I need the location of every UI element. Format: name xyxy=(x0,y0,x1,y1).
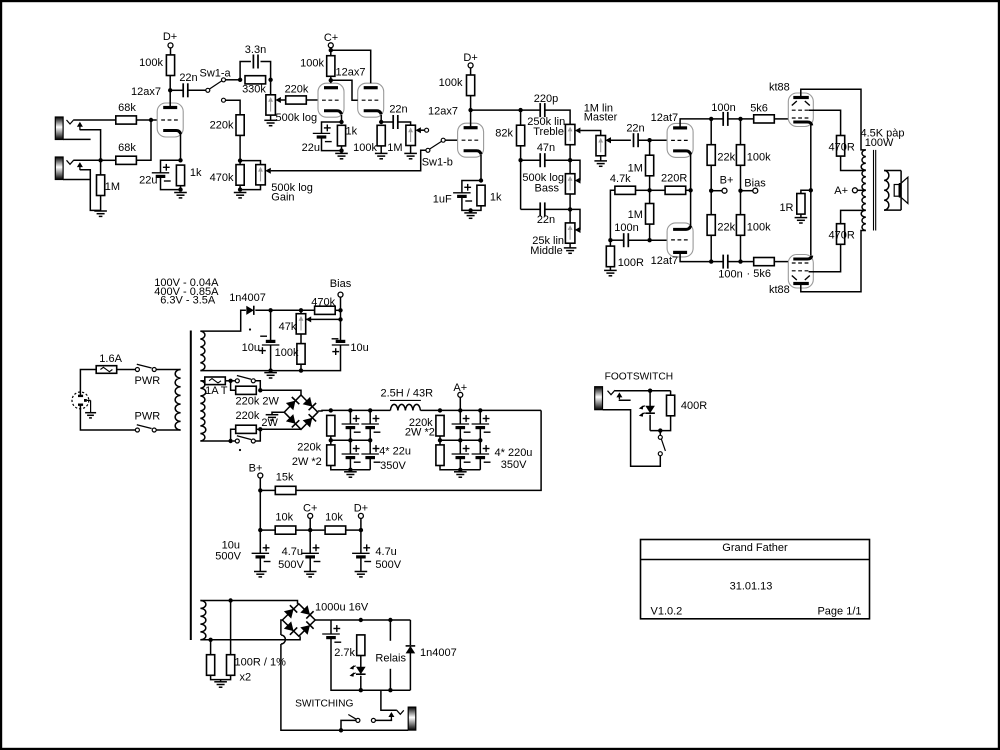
wire treble bottom xyxy=(569,145,571,174)
svg-text:Bias: Bias xyxy=(330,278,352,290)
terminal A+ (OPT) xyxy=(852,188,857,193)
wire 4.7uC top xyxy=(309,530,311,553)
label 4.5K pap xyxy=(861,128,905,140)
wire bleeder bottom xyxy=(331,466,370,470)
label PWR bottom xyxy=(135,411,161,423)
svg-text:2W *2: 2W *2 xyxy=(292,456,322,468)
potentiometer 500k log (volume) xyxy=(266,95,281,115)
svg-text:500V: 500V xyxy=(375,559,401,571)
junction V4b grid node xyxy=(647,238,651,242)
wire A+ to CT xyxy=(857,189,866,191)
jack SW tip contact xyxy=(396,710,404,715)
junction input node xyxy=(98,158,102,162)
svg-text:1.6A: 1.6A xyxy=(99,353,122,365)
label 15k xyxy=(276,472,294,484)
svg-text:2W *2: 2W *2 xyxy=(405,427,435,439)
svg-text:31.01.13: 31.01.13 xyxy=(730,581,773,593)
switch Sw1-b pole xyxy=(441,138,445,142)
wire C+ term xyxy=(309,518,311,530)
LED (relay) xyxy=(350,665,366,677)
resistor 470R (upper screen) xyxy=(837,136,845,157)
label 220k xyxy=(285,84,309,96)
capacitor 22n (PI input) xyxy=(634,133,639,147)
label 22n tone xyxy=(537,214,555,226)
wiper arrow middle xyxy=(575,227,581,233)
wire 1k-2 bottom xyxy=(341,146,343,153)
label version xyxy=(651,606,683,618)
junction top rail right xyxy=(738,117,742,121)
label 68k xyxy=(118,102,136,114)
wire middle wiper loop xyxy=(570,209,580,230)
wire Bias stub xyxy=(741,190,754,192)
capacitor 22u bank (1a) xyxy=(342,415,361,432)
wire capB2 leads xyxy=(479,440,481,454)
wire 100k bias bottom xyxy=(300,364,302,370)
label 220k bleeder2 xyxy=(409,417,433,429)
wire V4a plate xyxy=(680,119,711,128)
svg-text:B+: B+ xyxy=(249,463,263,475)
label 100R 1% xyxy=(235,657,287,669)
jack J1 tip contact xyxy=(67,120,75,125)
label 1A T xyxy=(205,385,228,397)
wire J2 sleeve xyxy=(63,179,90,181)
wire 22k lower bottom xyxy=(710,235,712,261)
wire fuse to switch xyxy=(117,369,136,371)
potentiometer 25k lin (Middle) xyxy=(565,223,580,243)
wire capB1 leads xyxy=(479,410,481,424)
label 500V d xyxy=(375,559,401,571)
wire bleeder2 bottom xyxy=(440,466,480,470)
switch soft start bottom xyxy=(235,436,255,443)
svg-text:100R / 1%: 100R / 1% xyxy=(235,657,287,669)
wire flyback top xyxy=(409,620,411,645)
jack J2 switch contact xyxy=(77,162,83,170)
svg-text:1n4007: 1n4007 xyxy=(420,647,457,659)
switch footsw remote xyxy=(348,715,375,723)
capacitor 100n (lower coupling) xyxy=(723,255,728,269)
wire 5k6 lower to KT88 xyxy=(774,261,788,263)
junction V1 plate node xyxy=(168,88,172,92)
label page xyxy=(817,606,861,618)
svg-text:220k: 220k xyxy=(210,119,234,131)
junction 100k bias gnd xyxy=(299,368,303,372)
label 4* 220u xyxy=(495,447,533,459)
label 400R xyxy=(681,400,707,412)
wire sleeve xyxy=(341,729,408,731)
junction 100R-2 top xyxy=(228,598,232,602)
svg-text:D+: D+ xyxy=(354,503,368,515)
resistor 100k (lower bias) xyxy=(736,215,744,236)
wire 470R upper to tap xyxy=(841,156,866,170)
label 47n xyxy=(537,142,555,154)
label 100k lower xyxy=(747,222,771,234)
wire fuse to node xyxy=(225,380,235,382)
wire B+ down xyxy=(259,478,261,530)
wire 1k-3 bottom xyxy=(471,206,481,211)
wire 1R top xyxy=(801,190,811,193)
label 22n PI xyxy=(626,123,644,135)
wire 3.3n right xyxy=(261,62,271,80)
label 22n xyxy=(389,104,407,116)
wire V2b cathode to 22n xyxy=(381,121,393,123)
label 10u bias1 xyxy=(242,342,260,354)
resistor 22k (upper) xyxy=(707,145,715,166)
wire plate node to 22n xyxy=(170,89,183,91)
wire Sw1-b pole to grid xyxy=(445,139,457,141)
resistor 1M (PI lower) xyxy=(646,204,654,225)
resistor 220k 2W (bleeder 1b) xyxy=(327,445,335,466)
fuse 1.6A xyxy=(96,366,117,374)
wire KT88u cathode xyxy=(810,125,812,190)
wire bypass bottom xyxy=(255,429,260,441)
wire bridge2 minus down xyxy=(281,644,341,730)
mains plug xyxy=(72,392,96,418)
ground volume pot xyxy=(264,120,277,125)
resistor 220R xyxy=(665,186,686,194)
ground 1M pot xyxy=(404,153,417,158)
wire D+ term xyxy=(360,518,362,530)
junction bleeder mid xyxy=(329,438,333,442)
wire B+ stub xyxy=(711,190,722,192)
wire capB1 bot xyxy=(479,428,481,441)
wire 1000u bottom xyxy=(331,638,361,691)
wire to bridge bottom2 xyxy=(260,428,301,430)
junction mid rail 1b xyxy=(368,438,372,442)
wire 100k lower bottom xyxy=(740,235,742,261)
terminal D+ (PSU) xyxy=(358,513,363,518)
label 12ax7 V1 xyxy=(131,86,161,98)
svg-text:330k: 330k xyxy=(242,84,266,96)
svg-text:220k 2W: 220k 2W xyxy=(236,396,280,408)
label SWITCHING xyxy=(295,699,353,710)
junction 100R-1 top xyxy=(208,638,212,642)
switch Sw1-a throw down xyxy=(222,98,226,102)
svg-text:500V: 500V xyxy=(215,551,241,563)
transformer PT HV1 winding xyxy=(200,331,205,371)
wire 82k bottom xyxy=(520,146,522,210)
junction HV2 bottom xyxy=(228,439,232,443)
wire 100k to V2a plate xyxy=(330,76,332,83)
junction V3 plate node xyxy=(468,108,472,112)
svg-text:100k: 100k xyxy=(747,152,771,164)
label 470R upper xyxy=(829,142,855,154)
label 220p xyxy=(534,93,558,105)
capacitor 4.7u (C+) xyxy=(301,544,320,561)
terminal Bias (PI) xyxy=(753,188,758,193)
transformer PT core xyxy=(190,331,192,641)
svg-text:47n: 47n xyxy=(537,142,555,154)
sign minus 10u2 xyxy=(332,339,340,355)
svg-text:B+: B+ xyxy=(720,175,734,187)
wire 22n to Sw1-a pole xyxy=(188,89,206,91)
junction sleeve node xyxy=(339,728,343,732)
wire 220R leads xyxy=(650,189,666,191)
wire cathode node to 22u xyxy=(161,160,181,173)
junction V2b cathode node xyxy=(379,120,383,124)
resistor 4.7k (PI tail) xyxy=(615,186,636,194)
junction V3 ground node xyxy=(468,208,472,212)
choke 2.5H/43R xyxy=(390,404,420,410)
label 1000u 16V xyxy=(315,602,369,614)
wire 100n lower right xyxy=(728,261,741,263)
resistor 100k (upper bias) xyxy=(736,145,744,166)
svg-text:100k: 100k xyxy=(747,222,771,234)
label 4.7k xyxy=(610,173,631,185)
label 1R xyxy=(779,202,793,214)
ground input xyxy=(94,211,107,216)
wire hop xyxy=(281,635,286,644)
ground 100R xyxy=(604,270,617,275)
junction V2a cathode node xyxy=(339,120,343,124)
wire treble wiper to master xyxy=(580,131,600,136)
wire cap1b leads xyxy=(369,410,371,424)
junction bank2 gnd xyxy=(458,468,462,472)
wire bridge2 minus xyxy=(281,620,283,635)
wire cap2b leads xyxy=(369,440,371,454)
junction fs LED top xyxy=(648,389,652,393)
wire 100n right xyxy=(628,239,649,241)
wire 220k-2W-1 left xyxy=(231,381,236,391)
wire J1 switch to J2 tip xyxy=(80,130,101,161)
switch soft start top xyxy=(235,376,255,383)
junction PI tail node xyxy=(647,188,651,192)
wire 4.7uD bot xyxy=(360,557,362,572)
label 100k xyxy=(439,77,463,89)
wire 220k to node xyxy=(239,135,241,164)
label 2W lower xyxy=(261,417,278,429)
label 100k xyxy=(300,58,324,70)
switch Sw1-a pole xyxy=(206,88,210,92)
label 4* 22u xyxy=(379,446,411,458)
capacitor 4.7u (D+) xyxy=(352,544,371,561)
junction bias gnd xyxy=(268,368,272,372)
wire C+ to V2b plate xyxy=(331,50,371,83)
wire switch to sleeve xyxy=(341,720,356,730)
wire cap1a leads xyxy=(349,410,351,424)
label 82k xyxy=(495,128,513,140)
wire J1 tip to 68k xyxy=(74,119,115,121)
wire bass bottom xyxy=(569,194,571,223)
label 1M PI upper xyxy=(628,163,643,175)
wire 1000u top xyxy=(330,620,332,634)
junction V2a plate node xyxy=(329,78,333,82)
svg-text:12ax7: 12ax7 xyxy=(336,67,366,79)
fs 400R drop xyxy=(670,391,672,396)
label kt88 upper xyxy=(769,82,790,94)
wire 1M leads xyxy=(100,160,102,175)
wire 4.7k left xyxy=(610,190,615,240)
label Gain xyxy=(271,191,294,203)
wire 100k upper leads xyxy=(740,119,742,145)
svg-text:22n: 22n xyxy=(626,123,644,135)
svg-text:Middle: Middle xyxy=(530,245,562,257)
wire V1 cathode xyxy=(180,134,182,160)
label 10k 1 xyxy=(275,512,293,524)
label 220k bleeder1 xyxy=(297,442,321,454)
wire KT88l screen xyxy=(809,244,841,271)
label 68k xyxy=(118,142,136,154)
wire 100n left xyxy=(610,239,623,241)
wire to 220p xyxy=(521,109,541,111)
wire 1M upper xyxy=(649,140,651,155)
svg-text:22u: 22u xyxy=(302,142,320,154)
svg-text:Bass: Bass xyxy=(535,183,560,195)
label 2W *2 bleeder2 xyxy=(405,427,435,439)
wire 6.3V bottom xyxy=(200,636,300,640)
wire master wiper to 22n xyxy=(611,139,631,141)
svg-text:6.3V - 3.5A: 6.3V - 3.5A xyxy=(160,295,216,307)
junction 220k string top xyxy=(329,408,333,412)
ground 1R xyxy=(795,218,808,223)
svg-text:100n: 100n xyxy=(711,102,735,114)
switch Sw1-b arm xyxy=(430,141,442,149)
svg-text:82k: 82k xyxy=(495,128,513,140)
wire 1M wiper xyxy=(421,129,425,131)
wire 15k left xyxy=(260,489,275,491)
wire gain pot bottom xyxy=(240,185,260,190)
label 470R lower xyxy=(829,230,855,242)
wire 100R1 top xyxy=(210,640,212,655)
wire bridge2 plus xyxy=(315,619,331,621)
label 500k log bass xyxy=(522,172,564,184)
svg-text:1000u 16V: 1000u 16V xyxy=(315,602,369,614)
label Middle xyxy=(530,245,562,257)
label D+ xyxy=(463,52,477,64)
wire 10u500 top xyxy=(259,530,261,553)
switch Sw1-a arm xyxy=(210,81,222,89)
label Grand Father xyxy=(722,542,788,554)
junction bleeder2 mid xyxy=(438,438,442,442)
wire mains bottom xyxy=(80,409,135,430)
capacitor 220u bank (1b) xyxy=(472,415,491,432)
resistor 15k xyxy=(275,486,296,494)
svg-text:4* 220u: 4* 220u xyxy=(495,447,533,459)
svg-text:470R: 470R xyxy=(829,142,855,154)
ground 10u500 xyxy=(254,572,267,577)
svg-text:500k log: 500k log xyxy=(276,112,318,124)
switch PWR top xyxy=(135,364,156,371)
resistor 220k (Sw1-a alt) xyxy=(236,115,244,136)
wire 10u-2 bottom xyxy=(200,345,340,371)
label A+ PSU xyxy=(453,382,467,394)
svg-text:PWR: PWR xyxy=(135,375,161,387)
fs LED stem xyxy=(649,391,651,407)
jack J2 tip contact xyxy=(67,160,75,165)
svg-text:1M: 1M xyxy=(387,142,402,154)
junction B node2 xyxy=(258,528,262,532)
wire 22u to bottom xyxy=(161,176,181,189)
wire cap2b bot xyxy=(369,458,371,470)
capacitor 22u bank (1b) xyxy=(361,415,380,432)
wire 10u-1 bottom xyxy=(270,345,272,371)
label 220R xyxy=(661,173,687,185)
svg-text:10k: 10k xyxy=(275,512,293,524)
svg-text:A+: A+ xyxy=(834,185,848,197)
wire B rail xyxy=(318,409,391,412)
wire secondary right xyxy=(900,171,902,211)
wire 100R top xyxy=(609,240,611,246)
ground bias xyxy=(264,373,277,378)
label 1n4007 flyback xyxy=(420,647,457,659)
resistor 100R (humdinger 1) xyxy=(207,655,215,676)
junction fs switch xyxy=(658,428,662,432)
svg-text:100k: 100k xyxy=(300,58,324,70)
wire 470R lower to tap xyxy=(841,210,866,224)
svg-text:10k: 10k xyxy=(325,512,343,524)
switch PWR bottom xyxy=(135,425,156,432)
wire 4.7uC bot xyxy=(309,557,311,572)
stray dot 1 xyxy=(249,328,251,330)
transformer PT 6.3V winding xyxy=(200,601,205,640)
capacitor 22n (tone) xyxy=(540,202,545,216)
svg-text:3.3n: 3.3n xyxy=(245,44,266,56)
resistor 220k 2W (bleeder 2a) xyxy=(436,415,444,436)
resistor 22k (lower) xyxy=(707,215,715,236)
fs NC stub xyxy=(619,399,630,401)
wire bass wiper loop xyxy=(570,160,580,180)
wire 6.3V top xyxy=(200,601,297,604)
wiper arrow master ext xyxy=(605,137,611,143)
label Relais xyxy=(375,653,406,665)
ground 4.7u C xyxy=(304,572,317,577)
label 330k xyxy=(242,84,266,96)
label 350V bank2 xyxy=(501,459,527,471)
wire 100R bottoms xyxy=(211,675,231,679)
svg-text:12ax7: 12ax7 xyxy=(428,106,458,118)
fs switch bottom xyxy=(603,410,661,467)
resistor 5k6 (upper grid) xyxy=(754,115,775,123)
wire bridge minus xyxy=(272,412,284,415)
ground gain xyxy=(234,193,247,198)
svg-text:Master: Master xyxy=(584,112,618,124)
transformer OPT core xyxy=(874,150,876,231)
svg-text:Sw1-b: Sw1-b xyxy=(422,157,453,169)
wire KT88u plate xyxy=(801,89,866,150)
svg-text:x2: x2 xyxy=(240,672,252,684)
svg-text:350V: 350V xyxy=(501,459,527,471)
wire V2a plate to V2b grid xyxy=(331,80,358,100)
resistor 220k 2W (lower) xyxy=(236,425,257,433)
svg-text:1k: 1k xyxy=(346,126,358,138)
wire B+ loop xyxy=(296,410,541,490)
label 22k upper xyxy=(717,152,735,164)
junction bias out xyxy=(338,308,342,312)
label 2.7k xyxy=(334,647,355,659)
svg-text:· 5k6: · 5k6 xyxy=(747,268,771,280)
label 1k xyxy=(346,126,358,138)
resistor 1k (V1 cathode) xyxy=(176,165,184,186)
fuse 1A T xyxy=(205,377,226,385)
wire KT88l plate xyxy=(801,231,866,292)
wire 82k xyxy=(520,110,522,126)
label B+ PI xyxy=(720,175,734,187)
label 3.3n xyxy=(245,44,266,56)
label 250k lin xyxy=(527,116,565,128)
junction relay top xyxy=(388,618,392,622)
wire 22n-2 to 1M pot xyxy=(398,122,411,125)
ground V1 cathode xyxy=(174,193,187,198)
footswitch jack xyxy=(595,387,603,410)
terminal D+ (V1) xyxy=(168,43,173,48)
junction bias wiper xyxy=(338,317,342,321)
label x2 xyxy=(240,672,252,684)
svg-text:400R: 400R xyxy=(681,400,707,412)
triode V4b 12at7 xyxy=(667,223,693,257)
capacitor 22n (coupling 1) xyxy=(183,83,188,97)
junction 47k top xyxy=(299,308,303,312)
label kt88 lower xyxy=(769,284,790,296)
wire bleeder2 mid xyxy=(439,436,441,445)
